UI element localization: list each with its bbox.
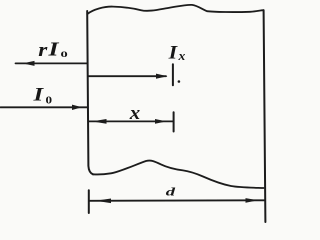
right boundary line of slab — [264, 10, 266, 222]
left surface line of slab — [87, 11, 93, 174]
svg-text:x: x — [177, 48, 185, 63]
svg-text:I: I — [168, 43, 179, 63]
depth tick at x for Ix — [172, 64, 174, 85]
svg-text:0: 0 — [46, 94, 53, 106]
svg-text:I: I — [47, 38, 59, 61]
d dimension right arrowhead — [246, 198, 259, 203]
bottom boundary wavy line of slab — [93, 161, 264, 188]
svg-text:I: I — [32, 83, 44, 105]
x dimension right tick — [173, 112, 175, 131]
svg-text:0: 0 — [61, 49, 68, 59]
x dimension line — [89, 120, 173, 122]
svg-text:x: x — [129, 103, 141, 124]
x dimension left arrowhead — [92, 119, 107, 124]
incident ray I0 line — [1, 106, 88, 108]
d dimension line — [89, 199, 265, 202]
I0 arrowhead (points right) — [72, 105, 82, 110]
rI0 arrowhead (points left) — [23, 61, 35, 66]
Ix arrowhead (points right) — [156, 74, 168, 79]
transmitted ray Ix line — [88, 75, 166, 77]
d dimension left arrowhead — [96, 199, 112, 204]
x dimension right arrowhead — [155, 119, 167, 124]
top boundary wavy line of slab — [87, 5, 263, 14]
dot after Ix tick — [178, 80, 181, 83]
svg-text:r: r — [38, 39, 48, 61]
reflected ray rI0 line — [16, 62, 88, 64]
d dimension left tick — [88, 190, 90, 213]
svg-text:d: d — [166, 186, 177, 199]
